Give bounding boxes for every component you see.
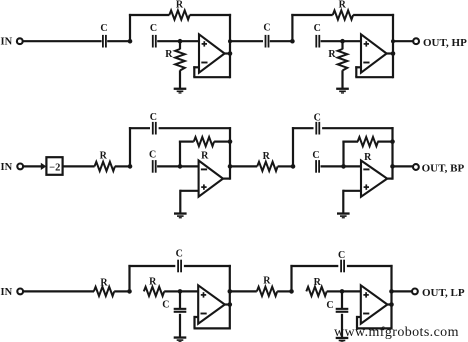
ground (LP stage 1)	[174, 336, 187, 342]
svg-text:R: R	[165, 49, 173, 60]
node bus tee (LP stage 2)	[389, 289, 394, 294]
svg-text:OUT, HP: OUT, HP	[423, 37, 467, 49]
op-amp U3 (BP stage 1)	[199, 161, 223, 197]
svg-text:www.mfgrobots.com: www.mfgrobots.com	[334, 325, 459, 340]
wire node F up to R6	[179, 141, 181, 167]
wire top to R3	[291, 14, 332, 16]
wire R1 to output bus	[190, 14, 232, 16]
svg-text:C: C	[338, 250, 345, 261]
wire to OUT HP terminal	[393, 40, 413, 42]
wire gain block to R5	[63, 165, 95, 167]
node H junction	[341, 164, 346, 169]
wire node B to op-amp U1	[180, 40, 199, 42]
wire R10 to node J	[164, 290, 180, 292]
node F junction	[178, 164, 183, 169]
node bus tee (LP stage 1)	[228, 289, 233, 294]
capacitor C6 (series, BP stage 1)	[149, 149, 157, 172]
node A junction	[128, 39, 133, 44]
resistor R5 (input, BP stage 1)	[95, 150, 115, 171]
wire node E up to C branch	[129, 127, 131, 166]
wire R11 to node K	[277, 290, 291, 292]
resistor R12 (series, LP stage 2)	[306, 277, 326, 296]
node U2 output junction	[391, 51, 396, 56]
resistor R8 (feedback, BP stage 2)	[358, 137, 378, 163]
capacitor C5 (feedback, BP stage 1)	[150, 112, 157, 134]
resistor R7 (input, BP stage 2)	[257, 151, 277, 171]
resistor R2 (to ground, HP stage 1)	[165, 49, 185, 71]
op-amp U6 (LP stage 2)	[361, 285, 388, 323]
output terminal OUT, HP	[413, 37, 467, 49]
resistor R9 (input, LP stage 1)	[94, 278, 114, 297]
wire C7 to output bus	[322, 127, 394, 129]
wire stage1 out to C3	[230, 40, 263, 42]
wire top branch to C11	[290, 265, 338, 267]
node C junction	[290, 39, 295, 44]
node U1 output junction	[228, 51, 233, 56]
svg-text:OUT, BP: OUT, BP	[422, 162, 465, 174]
svg-text:C: C	[162, 300, 169, 311]
wire node I up to C branch	[128, 265, 130, 292]
wire U2 inverting feedback loop	[355, 66, 393, 77]
node bus tee (BP stage 2)	[390, 164, 395, 169]
wire C11 to output bus	[347, 265, 393, 267]
wire IN to C1	[23, 40, 102, 42]
wire node A up to feedback	[129, 14, 131, 41]
wire R7 to node G	[278, 165, 293, 167]
capacitor C9 (feedback, LP stage 1)	[176, 249, 183, 273]
node U6 output junction	[389, 302, 394, 307]
op-amp U4 (BP stage 2)	[361, 161, 387, 197]
svg-text:R: R	[364, 152, 372, 163]
svg-text:R: R	[149, 277, 157, 288]
node K junction	[289, 289, 294, 294]
wire U5 output stub	[225, 303, 230, 305]
gain block -2	[46, 157, 62, 175]
wire R8 to output bus	[378, 141, 393, 143]
wire to R8	[342, 141, 358, 143]
capacitor C3 (series, HP stage 2)	[263, 23, 270, 48]
wire to OUT LP terminal	[392, 290, 412, 292]
resistor R11 (input, LP stage 2)	[257, 275, 277, 296]
wire output bus (LP stage 2)	[390, 265, 392, 330]
wire output bus (BP stage 2)	[391, 127, 393, 180]
wire output bus (HP stage 2)	[392, 14, 394, 78]
resistor R1 (feedback, HP stage 1)	[169, 0, 189, 20]
svg-text:R: R	[263, 275, 271, 286]
wire C2 to node B	[157, 40, 180, 42]
resistor R6 (feedback, BP stage 1)	[194, 137, 214, 162]
capacitor C10 (to ground, LP stage 1)	[162, 300, 186, 313]
capacitor C1 (series, HP stage 1)	[100, 23, 107, 47]
node bus tee (HP stage 2)	[391, 39, 395, 43]
wire node H to op-amp U4	[344, 165, 362, 167]
node J junction	[178, 289, 183, 294]
wire node L to op-amp U6	[342, 290, 361, 292]
wire node F to op-amp U3	[180, 165, 199, 167]
wire top branch to C7	[292, 127, 314, 129]
svg-text:R: R	[100, 278, 108, 289]
output terminal OUT, BP	[413, 162, 464, 174]
wire node L down to C12	[341, 291, 343, 308]
wire IN to R9	[24, 290, 94, 292]
svg-text:C: C	[314, 23, 321, 34]
wire U1 inverting feedback loop	[193, 66, 230, 77]
wire U2 output stub	[386, 52, 393, 54]
capacitor C8 (series, BP stage 2)	[312, 150, 320, 173]
input terminal IN (LP row)	[1, 287, 24, 298]
ground (BP stage 1)	[174, 212, 187, 218]
svg-text:C: C	[263, 23, 270, 34]
input terminal IN (HP row)	[1, 37, 23, 48]
wire node D to op-amp U2	[343, 40, 362, 42]
wire output bus (BP stage 1)	[229, 127, 231, 180]
wire top-left to R1	[129, 14, 170, 16]
wire U4 + input to ground	[343, 190, 361, 213]
wire stage1 out to R7	[230, 165, 257, 167]
ground (HP stage 2)	[336, 88, 349, 94]
input terminal IN (BP row)	[1, 162, 24, 173]
svg-text:R: R	[314, 277, 322, 288]
wire C1 to node A	[107, 40, 130, 42]
wire to R6	[179, 141, 194, 143]
wire U5 inverting feedback loop	[194, 316, 230, 329]
node E junction	[128, 164, 133, 169]
wire output bus (HP stage 1)	[229, 14, 231, 78]
wire node K up to C branch	[290, 265, 292, 292]
svg-text:C: C	[326, 300, 333, 311]
svg-text:R: R	[263, 151, 271, 162]
wire IN to gain block	[24, 165, 42, 167]
svg-text:IN: IN	[1, 287, 13, 298]
svg-text:R: R	[100, 150, 108, 161]
op-amp U1 (HP stage 1)	[199, 34, 225, 72]
svg-text:R: R	[176, 0, 184, 11]
wire U4 output stub	[387, 178, 393, 180]
node D junction	[340, 39, 345, 44]
wire C10 to ground	[179, 314, 181, 337]
svg-text:C: C	[176, 249, 183, 260]
wire R9 to node I	[114, 290, 129, 292]
wire top branch to C5	[129, 127, 150, 129]
wire node D down to R4	[341, 41, 343, 49]
node R6-bus junction	[228, 139, 233, 144]
wire stage1 out to R11	[230, 290, 257, 292]
wire R6 to output bus	[214, 141, 230, 143]
wire U3 output stub	[223, 178, 230, 180]
node G junction	[291, 164, 296, 169]
ground (BP stage 2)	[337, 212, 350, 218]
svg-text:C: C	[150, 112, 157, 123]
wire R3 to output bus	[353, 14, 394, 16]
capacitor C7 (feedback, BP stage 2)	[314, 112, 321, 134]
node B junction	[178, 39, 183, 44]
wire C9 to output bus	[184, 265, 231, 267]
op-amp U2 (HP stage 2)	[361, 34, 387, 72]
node U5 output junction	[228, 302, 233, 307]
node bus tee (HP stage 1)	[228, 39, 232, 43]
wire C12 to ground	[341, 314, 343, 337]
wire node C up to feedback	[291, 14, 293, 41]
wire node J down to C10	[179, 291, 181, 308]
node R8-bus junction	[390, 139, 395, 144]
wire output bus (LP stage 1)	[229, 265, 231, 330]
wire node B down to R2	[179, 41, 181, 49]
ground (LP stage 2)	[336, 337, 349, 342]
arrowhead into gain block	[41, 163, 47, 170]
wire R12 to node L	[327, 290, 342, 292]
wire C5 to output bus	[159, 127, 232, 129]
svg-text:IN: IN	[1, 37, 13, 48]
wire node J to op-amp U5	[180, 290, 198, 292]
wire C3 to node C	[270, 40, 293, 42]
svg-text:C: C	[314, 112, 321, 123]
svg-text:IN: IN	[1, 162, 13, 173]
svg-text:OUT, LP: OUT, LP	[422, 287, 465, 299]
node bus tee (BP stage 1)	[228, 164, 233, 169]
ground (HP stage 1)	[174, 88, 187, 94]
wire U6 inverting feedback loop	[356, 316, 392, 329]
wire node H up to R8	[342, 141, 344, 167]
wire U6 output stub	[387, 303, 391, 305]
capacitor C12 (to ground, LP stage 2)	[326, 300, 348, 313]
svg-text:C: C	[100, 23, 107, 34]
capacitor C11 (feedback, LP stage 2)	[338, 250, 345, 272]
svg-text:R: R	[339, 0, 347, 11]
wire top branch to C9	[128, 265, 175, 267]
wire node G up to C branch	[292, 127, 294, 166]
svg-text:R: R	[201, 151, 209, 162]
watermark text	[334, 325, 459, 340]
svg-text:−2: −2	[49, 162, 60, 173]
node L junction	[340, 289, 345, 294]
svg-text:C: C	[150, 23, 157, 34]
output terminal OUT, LP	[412, 287, 465, 299]
wire U3 + input to ground	[180, 190, 198, 213]
resistor R10 (series, LP stage 1)	[144, 277, 164, 297]
op-amp U5 (LP stage 1)	[198, 285, 225, 323]
wire R2 to ground	[179, 70, 181, 88]
wire C6 to node F	[157, 165, 180, 167]
capacitor C2 (series, HP stage 1)	[150, 23, 157, 48]
svg-text:C: C	[312, 150, 319, 161]
wire C4 to node D	[321, 40, 343, 42]
capacitor C4 (series, HP stage 2)	[314, 23, 321, 47]
node I junction	[127, 289, 132, 294]
wire to OUT BP terminal	[393, 165, 413, 167]
svg-text:R: R	[328, 49, 336, 60]
wire R4 to ground	[341, 70, 343, 88]
resistor R3 (feedback, HP stage 2)	[333, 0, 353, 20]
wire U1 output stub	[224, 52, 230, 54]
resistor R4 (to ground, HP stage 2)	[328, 49, 347, 71]
wire R5 to node E	[115, 165, 130, 167]
svg-text:C: C	[149, 149, 156, 160]
wire C8 to node H	[321, 165, 344, 167]
